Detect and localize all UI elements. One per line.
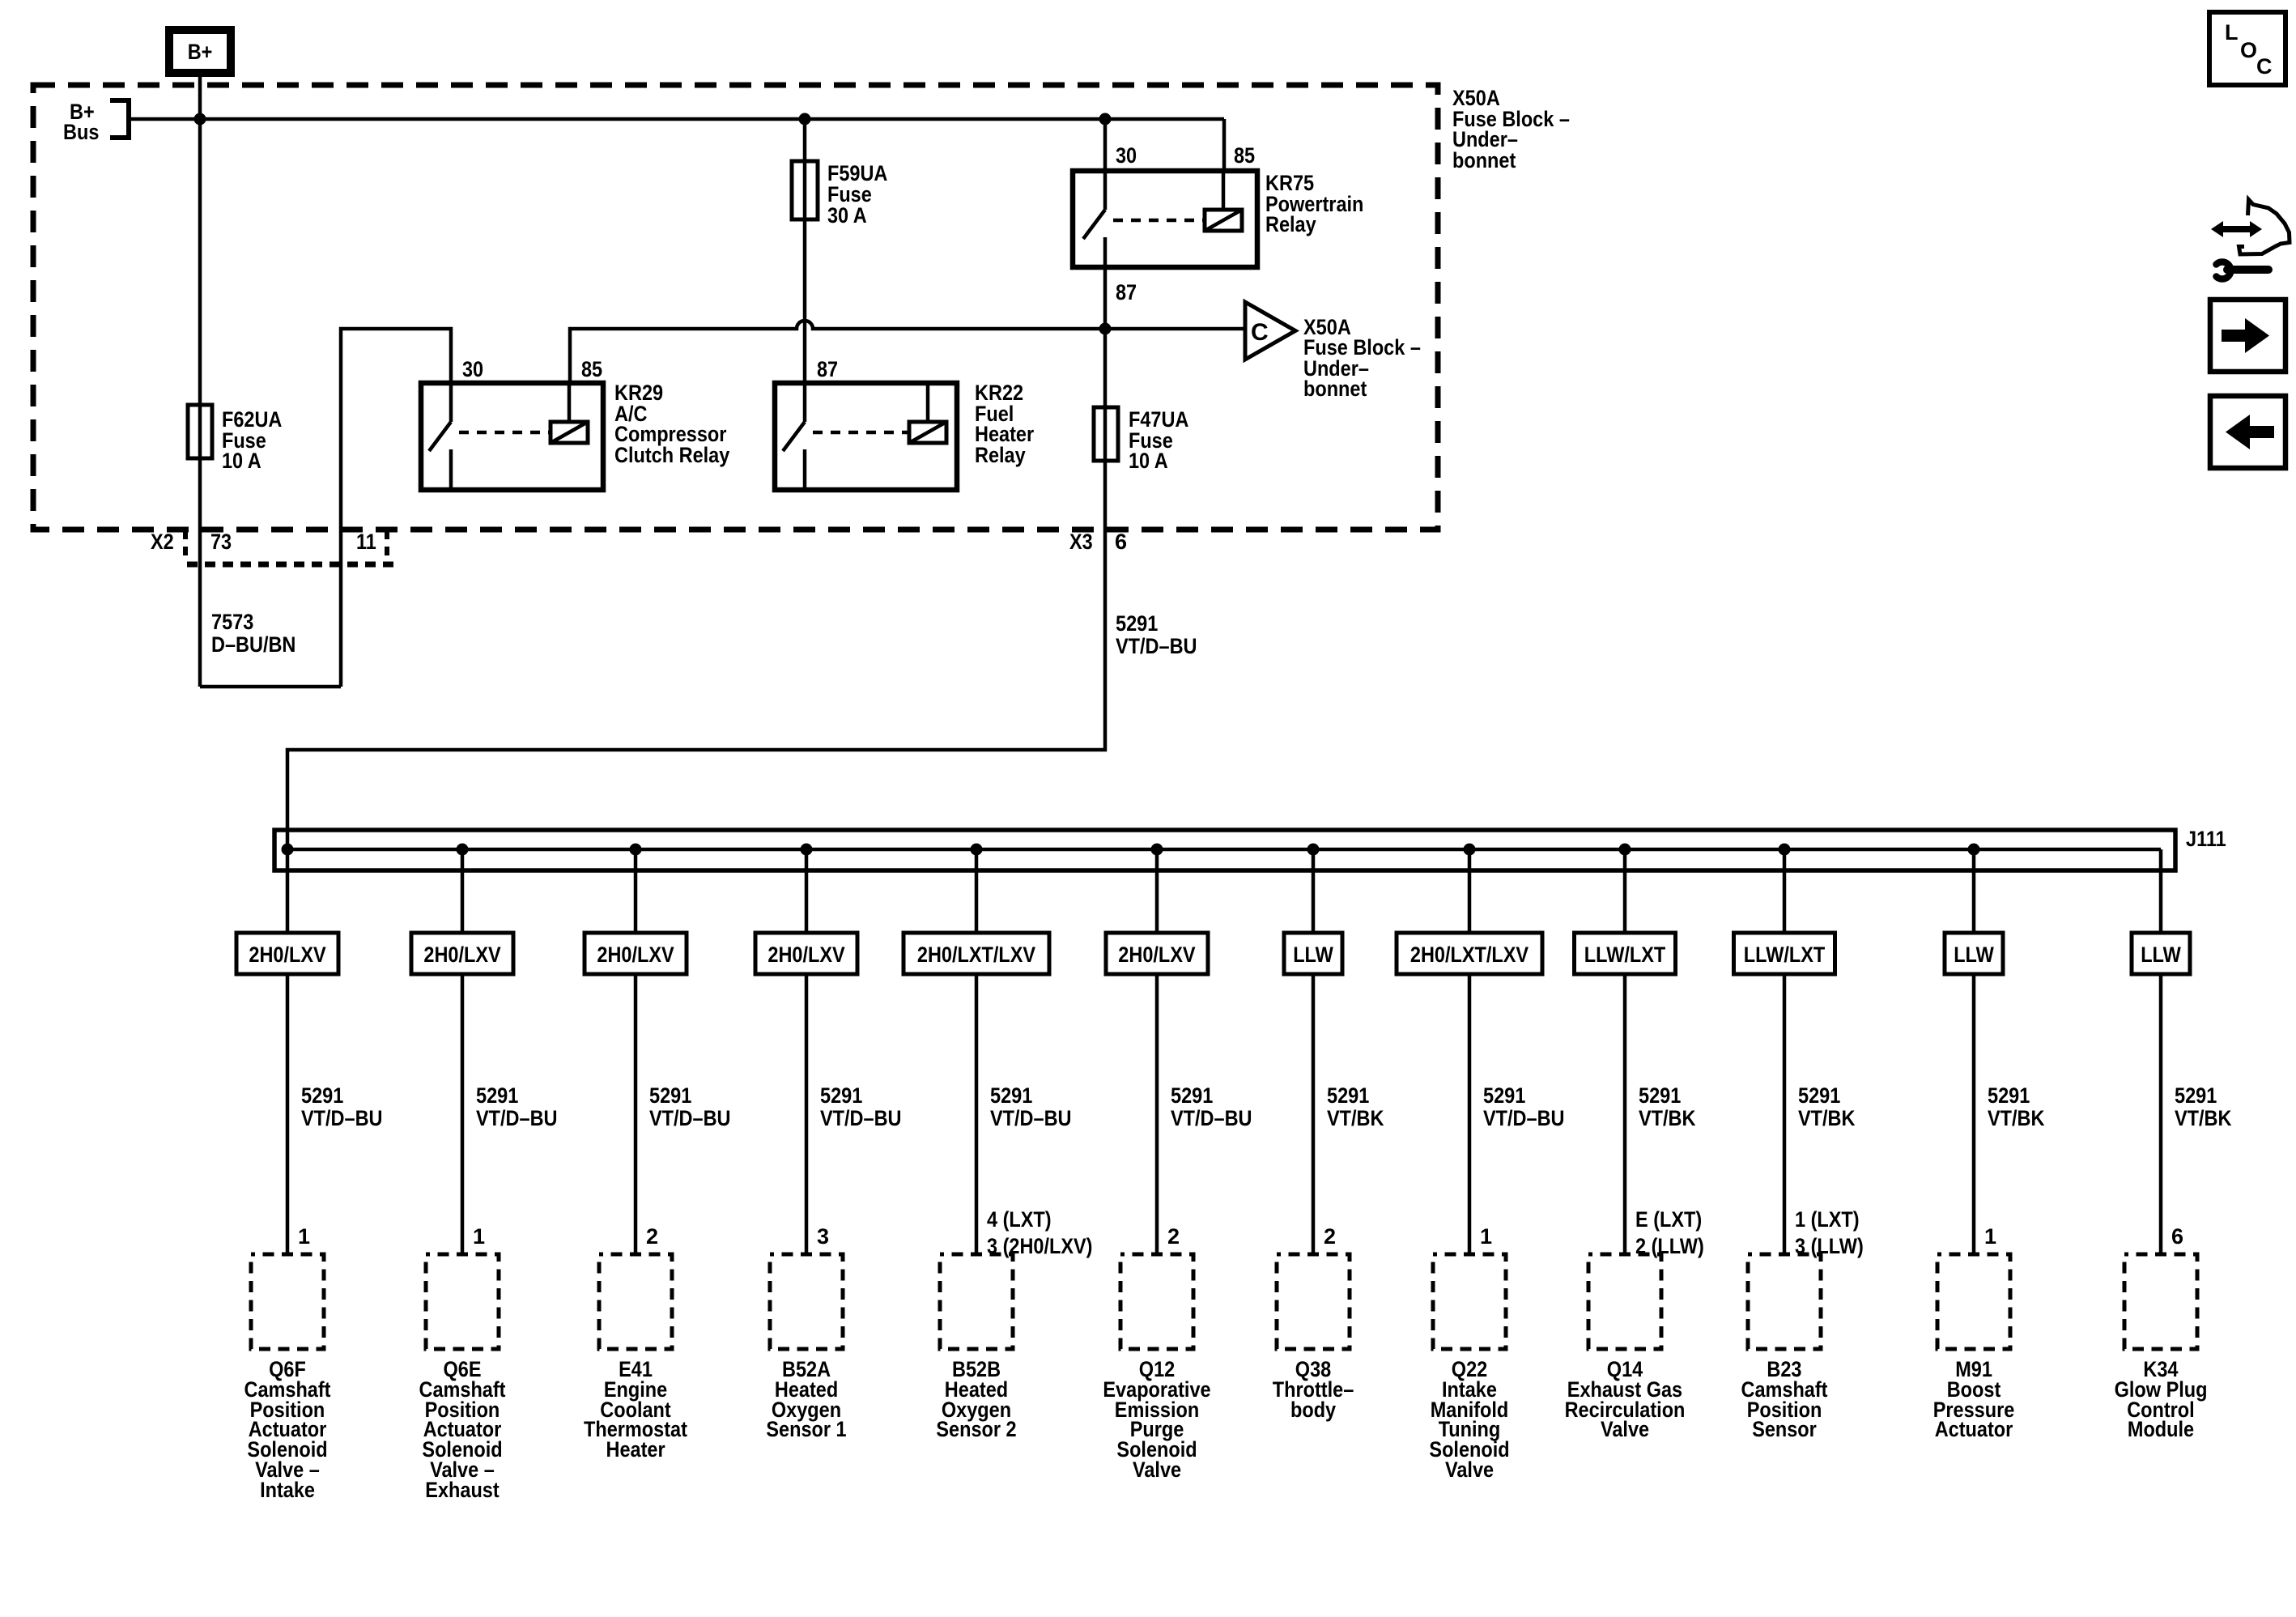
wire branch 7 from J111	[1307, 844, 1320, 856]
wire KR75 pin 87	[1103, 267, 1108, 530]
wire branch 2 to component	[461, 974, 465, 1254]
back arrow box	[2210, 396, 2285, 468]
wire KR75 pin 30 drop	[1103, 119, 1108, 171]
LOC reference box	[2209, 12, 2285, 85]
wire branch 11 to component	[1972, 974, 1976, 1254]
svg-text:1: 1	[298, 1224, 310, 1249]
wire X2-11 riser to KR29 pin 30	[341, 329, 451, 687]
svg-text:J111: J111	[2186, 827, 2226, 851]
svg-text:5291: 5291	[1798, 1083, 1840, 1108]
svg-text:2H0/LXT/LXV: 2H0/LXT/LXV	[917, 943, 1035, 967]
harness code box branch 5: 2H0/LXT/LXV	[904, 933, 1049, 974]
fuse F62UA	[188, 405, 282, 473]
svg-text:VT/BK: VT/BK	[1639, 1106, 1696, 1130]
svg-text:VT/D–BU: VT/D–BU	[990, 1106, 1072, 1130]
splice J111 bar	[274, 827, 2226, 870]
svg-text:73: 73	[210, 530, 232, 554]
svg-text:85: 85	[1234, 143, 1255, 168]
wire label 5291 VT/D–BU branch 3	[649, 1083, 731, 1130]
svg-text:LLW/LXT: LLW/LXT	[1584, 943, 1666, 967]
svg-text:87: 87	[817, 357, 838, 381]
harness code box branch 4: 2H0/LXV	[755, 933, 857, 974]
junction B+ drop	[194, 113, 206, 126]
wire KR29 pin 85 to off-page C (with hop over F59UA wire)	[570, 321, 1244, 383]
wire branch 9 from J111	[1619, 844, 1631, 856]
svg-text:Exhaust: Exhaust	[425, 1478, 499, 1502]
pin label branch 9	[1635, 1207, 1704, 1258]
svg-text:11: 11	[356, 530, 376, 554]
wire branch 3 to component	[634, 974, 638, 1254]
svg-text:Sensor: Sensor	[1752, 1417, 1817, 1441]
wire B+ bus	[129, 117, 1224, 121]
svg-text:5291: 5291	[476, 1083, 518, 1108]
harness code box branch 2: 2H0/LXV	[411, 933, 513, 974]
svg-text:2H0/LXT/LXV: 2H0/LXT/LXV	[1410, 943, 1529, 967]
svg-text:Sensor 2: Sensor 2	[936, 1417, 1016, 1441]
component K34 glow plug control module	[2115, 1254, 2208, 1441]
svg-text:30: 30	[462, 357, 483, 381]
svg-text:Module: Module	[2128, 1417, 2194, 1441]
wire branch 1 from J111	[282, 844, 294, 856]
harness code box branch 8: 2H0/LXT/LXV	[1397, 933, 1542, 974]
node B+ Bus bracket	[63, 100, 129, 144]
svg-text:D–BU/BN: D–BU/BN	[211, 632, 296, 657]
wire label 5291 VT/BK branch 9	[1639, 1083, 1696, 1130]
connector X2	[151, 530, 397, 564]
svg-text:5291: 5291	[820, 1083, 862, 1108]
svg-text:3 (2H0/LXV): 3 (2H0/LXV)	[987, 1234, 1093, 1258]
wire branch 11 from J111	[1968, 844, 1980, 856]
wire branch 8 to component	[1468, 974, 1472, 1254]
harness code box branch 9: LLW/LXT	[1575, 933, 1676, 974]
svg-text:2H0/LXV: 2H0/LXV	[249, 943, 325, 967]
wire branch 8 from J111	[1464, 844, 1476, 856]
svg-text:body: body	[1290, 1398, 1336, 1422]
relay KR22	[775, 381, 1035, 490]
wire label 5291 VT/BK branch 10	[1798, 1083, 1856, 1130]
svg-text:1 (LXT): 1 (LXT)	[1795, 1207, 1860, 1232]
wire label 5291 VT/BK branch 11	[1988, 1083, 2045, 1130]
wire label 7573 D-BU/BN	[211, 610, 296, 657]
svg-text:LLW: LLW	[1293, 943, 1333, 967]
wire label 5291 VT/D–BU branch 5	[990, 1083, 1072, 1130]
component Q14 exhaust gas recirculation valve	[1565, 1254, 1686, 1441]
harness code box branch 6: 2H0/LXV	[1106, 933, 1208, 974]
wire label 5291 VT/D–BU branch 2	[476, 1083, 558, 1130]
svg-text:5291: 5291	[1483, 1083, 1525, 1108]
vehicle service icon (car, double arrow, wrench)	[2211, 200, 2290, 279]
fuse F59UA	[792, 161, 887, 228]
junction KR75 87 / C wire	[1099, 323, 1112, 335]
wire 7573 bottom U	[200, 685, 341, 689]
wire F59UA branch	[803, 119, 807, 383]
component E41 engine coolant thermostat heater	[584, 1254, 687, 1462]
wire label 5291 VT/D–BU branch 8	[1483, 1083, 1565, 1130]
svg-text:4 (LXT): 4 (LXT)	[987, 1207, 1052, 1232]
wire branch 3 from J111	[630, 844, 642, 856]
svg-text:Intake: Intake	[260, 1478, 315, 1502]
svg-text:Sensor 1: Sensor 1	[766, 1417, 846, 1441]
wire branch 9 to component	[1623, 974, 1627, 1254]
component M91 boost pressure actuator	[1933, 1254, 2015, 1441]
wire branch 5 from J111	[971, 844, 983, 856]
component Q12 evaporative emission purge solenoid valve	[1103, 1254, 1210, 1482]
svg-text:1: 1	[1984, 1224, 1996, 1249]
svg-text:5291: 5291	[1988, 1083, 2030, 1108]
svg-text:C: C	[2256, 54, 2273, 79]
svg-text:Actuator: Actuator	[1935, 1417, 2013, 1441]
svg-text:5291: 5291	[1639, 1083, 1681, 1108]
svg-text:30 A: 30 A	[827, 203, 867, 228]
svg-text:LLW/LXT: LLW/LXT	[1744, 943, 1826, 967]
junction KR75 pin 30 tap	[1099, 113, 1112, 126]
svg-text:5291: 5291	[649, 1083, 691, 1108]
wire branch 10 from J111	[1779, 844, 1791, 856]
svg-text:O: O	[2240, 38, 2257, 62]
power symbol B+ box	[169, 30, 231, 73]
fuse F47UA	[1094, 407, 1188, 473]
component Q22 intake manifold tuning solenoid valve	[1429, 1254, 1509, 1482]
svg-text:Relay: Relay	[975, 443, 1026, 467]
wire branch 4 to component	[805, 974, 809, 1254]
wire label 5291 VT/BK branch 7	[1327, 1083, 1384, 1130]
svg-text:5291: 5291	[2175, 1083, 2217, 1108]
svg-text:Valve: Valve	[1601, 1417, 1649, 1441]
svg-text:85: 85	[581, 357, 602, 381]
svg-text:VT/BK: VT/BK	[1988, 1106, 2045, 1130]
forward arrow box	[2210, 300, 2285, 372]
wire B+ box to bus	[198, 73, 202, 119]
svg-text:VT/D–BU: VT/D–BU	[1483, 1106, 1565, 1130]
X50A fuse block label	[1452, 86, 1570, 172]
svg-text:Heater: Heater	[606, 1437, 666, 1462]
svg-text:B+: B+	[188, 40, 213, 64]
svg-text:5291: 5291	[1116, 611, 1158, 636]
svg-text:Valve: Valve	[1445, 1457, 1494, 1482]
svg-text:10 A: 10 A	[222, 449, 261, 473]
wire F62UA / 7573 left branch	[198, 119, 202, 687]
svg-text:VT/D–BU: VT/D–BU	[1116, 634, 1197, 658]
wire branch 7 to component	[1312, 974, 1316, 1254]
wire label 5291 VT/D-BU (feeder)	[1116, 611, 1197, 658]
svg-text:7573: 7573	[211, 610, 253, 634]
wire branch 2 from J111	[457, 844, 469, 856]
harness code box branch 10: LLW/LXT	[1734, 933, 1835, 974]
wire branch 4 from J111	[801, 844, 813, 856]
pin label branch 10	[1795, 1207, 1864, 1258]
svg-text:LLW: LLW	[2141, 943, 2181, 967]
svg-text:Relay: Relay	[1265, 212, 1316, 236]
svg-text:2H0/LXV: 2H0/LXV	[1118, 943, 1195, 967]
svg-text:VT/D–BU: VT/D–BU	[301, 1106, 383, 1130]
component B52B heated oxygen sensor 2	[936, 1254, 1016, 1441]
component Q6E camshaft position actuator solenoid valve (exhaust)	[419, 1254, 506, 1502]
svg-text:C: C	[1251, 319, 1269, 346]
component B52A heated oxygen sensor 1	[766, 1254, 846, 1441]
wire branch 12 to component	[2159, 974, 2163, 1254]
svg-text:VT/D–BU: VT/D–BU	[476, 1106, 558, 1130]
wire label 5291 VT/D–BU branch 6	[1171, 1083, 1252, 1130]
svg-text:bonnet: bonnet	[1452, 148, 1516, 172]
relay KR75	[1073, 171, 1363, 267]
svg-text:2: 2	[1324, 1224, 1336, 1249]
wire branch 10 to component	[1783, 974, 1787, 1254]
svg-text:bonnet: bonnet	[1303, 377, 1367, 401]
svg-text:Clutch Relay: Clutch Relay	[614, 443, 729, 467]
svg-text:2H0/LXV: 2H0/LXV	[423, 943, 500, 967]
harness code box branch 3: 2H0/LXV	[585, 933, 687, 974]
wire branch 5 to component	[975, 974, 979, 1254]
svg-text:5291: 5291	[1327, 1083, 1369, 1108]
svg-text:10 A: 10 A	[1129, 449, 1168, 473]
relay KR29	[421, 381, 729, 490]
wire 5291 feeder to splice	[287, 530, 1105, 849]
svg-text:2: 2	[1167, 1224, 1180, 1249]
svg-text:VT/D–BU: VT/D–BU	[649, 1106, 731, 1130]
harness code box branch 7: LLW	[1284, 933, 1342, 974]
wire KR75 pin 85 drop	[1222, 119, 1227, 171]
wire label 5291 VT/D–BU branch 1	[301, 1083, 383, 1130]
off-page connector C	[1245, 302, 1421, 401]
svg-text:5291: 5291	[301, 1083, 343, 1108]
harness code box branch 12: LLW	[2132, 933, 2190, 974]
svg-text:X3: X3	[1069, 530, 1093, 554]
harness code box branch 1: 2H0/LXV	[236, 933, 338, 974]
svg-text:30: 30	[1116, 143, 1137, 168]
wire label 5291 VT/D–BU branch 4	[820, 1083, 902, 1130]
svg-text:6: 6	[1115, 530, 1127, 554]
pin label branch 5	[987, 1207, 1093, 1258]
wire branch 12 from J111	[2159, 849, 2163, 933]
harness code box branch 11: LLW	[1945, 933, 2003, 974]
svg-text:L: L	[2225, 20, 2239, 45]
wire branch 1 to component	[286, 974, 290, 1254]
svg-text:6: 6	[2171, 1224, 2183, 1249]
component Q6F camshaft position actuator solenoid valve (intake)	[244, 1254, 331, 1502]
svg-text:VT/D–BU: VT/D–BU	[820, 1106, 902, 1130]
wire branch 6 from J111	[1151, 844, 1163, 856]
svg-text:VT/D–BU: VT/D–BU	[1171, 1106, 1252, 1130]
svg-text:3: 3	[817, 1224, 829, 1249]
svg-text:2: 2	[646, 1224, 658, 1249]
component Q38 throttle body	[1273, 1254, 1354, 1422]
svg-text:Bus: Bus	[63, 120, 99, 144]
svg-text:X2: X2	[151, 530, 174, 554]
wire branch 6 to component	[1155, 974, 1159, 1254]
connector X3	[1069, 530, 1127, 554]
svg-text:VT/BK: VT/BK	[1327, 1106, 1384, 1130]
component B23 camshaft position sensor	[1741, 1254, 1828, 1441]
svg-text:2H0/LXV: 2H0/LXV	[597, 943, 674, 967]
svg-text:2H0/LXV: 2H0/LXV	[767, 943, 844, 967]
wire label 5291 VT/BK branch 12	[2175, 1083, 2232, 1130]
svg-text:LLW: LLW	[1954, 943, 1994, 967]
X50A fuse block dashed boundary	[33, 85, 1438, 530]
svg-text:VT/BK: VT/BK	[1798, 1106, 1856, 1130]
svg-text:E (LXT): E (LXT)	[1635, 1207, 1702, 1232]
svg-text:87: 87	[1116, 280, 1137, 304]
svg-text:1: 1	[1480, 1224, 1492, 1249]
svg-text:5291: 5291	[1171, 1083, 1213, 1108]
svg-text:Valve: Valve	[1133, 1457, 1181, 1482]
junction F59UA tap	[799, 113, 811, 126]
svg-text:1: 1	[473, 1224, 485, 1249]
svg-text:5291: 5291	[990, 1083, 1032, 1108]
svg-text:VT/BK: VT/BK	[2175, 1106, 2232, 1130]
